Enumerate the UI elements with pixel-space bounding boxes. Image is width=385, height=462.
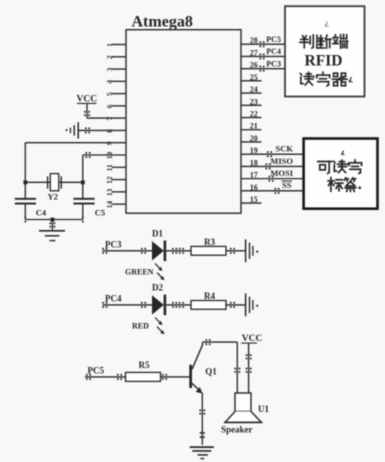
svg-text:22: 22 — [250, 110, 258, 119]
svg-text:19: 19 — [250, 146, 258, 155]
svg-text:6: 6 — [105, 104, 114, 108]
svg-text:25: 25 — [250, 73, 258, 82]
svg-text:C5: C5 — [95, 207, 105, 217]
svg-text:27: 27 — [250, 48, 258, 57]
svg-text:26: 26 — [250, 61, 258, 70]
svg-text:2: 2 — [105, 55, 114, 59]
svg-text:9: 9 — [105, 141, 114, 145]
svg-text:D2: D2 — [152, 282, 163, 292]
svg-text:SCK: SCK — [276, 144, 294, 154]
svg-text:RFID: RFID — [305, 53, 343, 70]
svg-text:12: 12 — [105, 176, 114, 184]
svg-text:13: 13 — [105, 188, 114, 196]
svg-text:GREEN: GREEN — [125, 267, 154, 276]
svg-text:R4: R4 — [204, 291, 215, 301]
svg-text:3: 3 — [105, 67, 114, 71]
svg-text:7: 7 — [105, 117, 114, 121]
svg-text:Y2: Y2 — [48, 191, 58, 201]
svg-text:8: 8 — [105, 129, 114, 133]
svg-text:Q1: Q1 — [205, 367, 217, 377]
svg-text:D1: D1 — [152, 228, 163, 238]
svg-text:R3: R3 — [204, 237, 215, 247]
svg-text:10: 10 — [105, 152, 114, 160]
svg-text:24: 24 — [250, 85, 258, 94]
svg-text:1: 1 — [105, 43, 114, 47]
svg-text:14: 14 — [105, 201, 114, 209]
svg-text:SS: SS — [282, 180, 292, 190]
svg-text:PC4: PC4 — [266, 47, 281, 56]
svg-text:16: 16 — [250, 183, 258, 192]
svg-text:PC5: PC5 — [266, 35, 281, 44]
svg-text:28: 28 — [250, 36, 258, 45]
svg-text:5: 5 — [105, 92, 114, 96]
svg-text:PC3: PC3 — [105, 240, 122, 250]
svg-text:PC4: PC4 — [105, 294, 122, 304]
svg-text:MISO: MISO — [270, 156, 293, 166]
svg-text:RED: RED — [132, 321, 149, 330]
svg-text:4: 4 — [105, 80, 114, 84]
svg-text:U1: U1 — [258, 404, 269, 414]
svg-text:PC3: PC3 — [266, 59, 281, 68]
svg-text:PC5: PC5 — [88, 365, 105, 375]
svg-text:R5: R5 — [139, 360, 150, 370]
svg-text:C4: C4 — [36, 207, 47, 217]
svg-text:23: 23 — [250, 97, 258, 106]
svg-text:Atmega8: Atmega8 — [132, 14, 193, 31]
svg-text:Speaker: Speaker — [221, 425, 253, 435]
svg-text:11: 11 — [105, 164, 114, 171]
svg-text:18: 18 — [250, 158, 258, 167]
svg-text:17: 17 — [250, 171, 258, 180]
svg-text:15: 15 — [250, 195, 258, 204]
svg-text:MOSI: MOSI — [270, 168, 293, 178]
svg-text:20: 20 — [250, 134, 258, 143]
svg-text:21: 21 — [250, 122, 258, 131]
